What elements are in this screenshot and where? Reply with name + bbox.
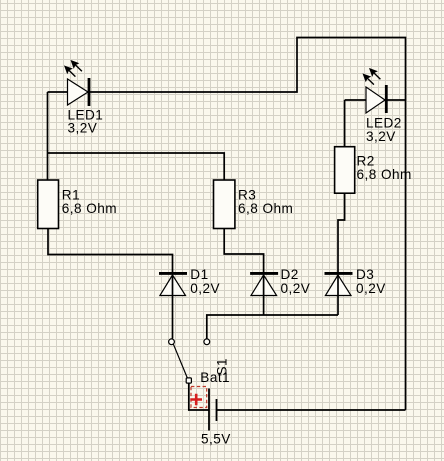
diode D3 cathode bar [325,272,353,275]
resistor R1 [38,180,59,229]
svg-text:0,2V: 0,2V [356,281,386,296]
wire: switch lever contact to battery plus [189,382,209,410]
wire: R2 bottom to D3 [338,193,345,273]
diode D1 cathode bar [159,272,187,275]
LED LED2 [364,69,387,113]
svg-text:S1: S1 [214,358,229,376]
battery Bat1 positive plate (long) [208,389,210,431]
svg-text:6,8 Ohm: 6,8 Ohm [62,201,117,216]
switch S1 right contact [204,339,210,345]
svg-text:D3: D3 [356,267,374,282]
wire: branch to R3 [48,153,225,180]
resistor R2 [335,147,355,194]
diode D2 triangle [251,275,277,296]
svg-text:6,8 Ohm: 6,8 Ohm [357,167,412,182]
wire: R1 bottom to D1 [48,229,173,274]
wire: LED2 left down to R2 [344,100,346,147]
diode D2 cathode bar [250,272,278,275]
battery Bat1 negative plate (short) [216,399,218,421]
switch S1 lever [173,344,187,378]
battery polarity red dashed box [191,387,207,408]
wire: battery minus to right rail [217,409,406,411]
wire: bottom bus D2/D3 to switch right contact [207,315,338,339]
diode D1 triangle [160,275,186,296]
svg-text:0,2V: 0,2V [190,281,220,296]
svg-text:3,2V: 3,2V [366,129,396,144]
wire: D1 bottom to switch contact [172,275,174,339]
diode D3 triangle [325,275,351,296]
wire: LED1 row to top-right corner [48,38,406,411]
wire: R3 bottom to D2 [224,229,263,274]
svg-text:0,2V: 0,2V [281,281,311,296]
LED LED1 [65,61,89,106]
wire: LED2 row [345,99,406,101]
svg-text:6,8 Ohm: 6,8 Ohm [238,201,293,216]
svg-text:D1: D1 [190,267,208,282]
svg-text:3,2V: 3,2V [68,121,98,136]
switch S1 pole contact [186,378,191,383]
svg-text:5,5V: 5,5V [201,432,231,447]
svg-text:D2: D2 [281,267,299,282]
wire: D2 bottom to bottom bus [263,275,265,315]
battery plus sign [190,394,202,406]
resistor R3 [214,180,235,229]
wire: LED1 left down to R1 [47,92,49,180]
wire: D3 through [337,275,339,315]
switch S1 left contact [169,339,175,345]
